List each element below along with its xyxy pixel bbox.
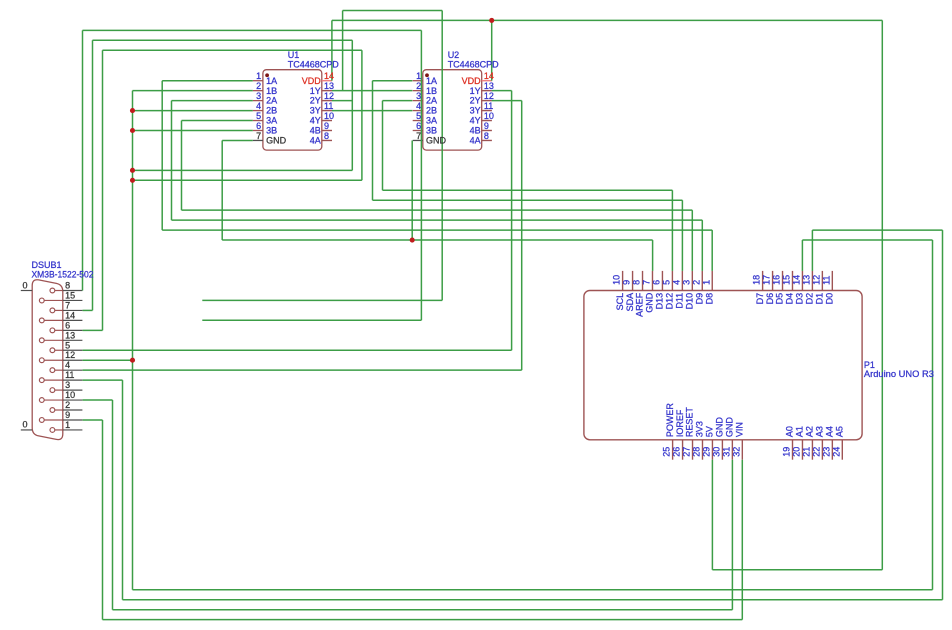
svg-text:5: 5 [416,111,421,121]
wire junction column vertical [132,91,134,590]
wire net U2-1Y/DSUB5 horizontal [83,349,512,351]
wire net DSUB11/D2 P1 drop [811,230,813,271]
wire net U1-2A/D9 drop [171,101,173,221]
wire net DSUB pin6 top horizontal [103,49,362,51]
svg-text:4: 4 [256,101,261,111]
svg-text:1B: 1B [426,86,437,96]
DSUB1 reference labels [32,260,94,280]
svg-text:2: 2 [691,280,701,285]
wire net DSUB pin8 top horizontal [83,29,422,31]
svg-text:6: 6 [416,121,421,131]
svg-text:9: 9 [484,121,489,131]
wire VDD net: right vertical [881,20,883,569]
svg-text:11: 11 [65,370,74,380]
wire VDD net: U1 pin14 riser [331,20,333,80]
svg-text:10: 10 [484,111,494,121]
svg-text:D0: D0 [825,293,835,305]
wire net DSUB9/VIN32 bottom horizontal [103,619,743,621]
svg-text:2: 2 [416,81,421,91]
svg-text:3: 3 [256,91,261,101]
svg-text:A4: A4 [825,426,835,437]
svg-text:1A: 1A [426,76,437,86]
P1 reference labels [864,360,934,379]
svg-text:4: 4 [671,280,681,285]
svg-text:TC4468CPD: TC4468CPD [288,60,339,70]
svg-text:3V3: 3V3 [695,421,705,437]
wire D3 wrap horizontal [802,239,932,241]
svg-text:D12: D12 [665,293,675,310]
svg-text:3A: 3A [266,116,277,126]
svg-text:0: 0 [23,420,28,430]
driver IC U2 TC4468CPD body [413,70,492,150]
svg-text:A3: A3 [815,426,825,437]
svg-text:D7: D7 [755,293,765,305]
svg-text:7: 7 [416,131,421,141]
wire net U2-2A/D12 bus horizontal [383,189,673,191]
U1 pin-1 marker [265,73,269,77]
wire net DSUB pin7 bus horizontal [133,169,353,171]
svg-text:12: 12 [65,350,75,360]
svg-text:RESET: RESET [685,407,695,438]
svg-text:8: 8 [632,280,642,285]
svg-text:32: 32 [731,447,741,457]
svg-text:10: 10 [612,275,622,285]
svg-text:13: 13 [484,81,494,91]
wire net U1-1Y bridge top [343,10,443,12]
svg-text:1A: 1A [266,76,277,86]
svg-text:23: 23 [821,447,831,457]
svg-text:9: 9 [65,410,70,420]
svg-text:2: 2 [256,81,261,91]
svg-text:8: 8 [324,131,329,141]
svg-text:GND: GND [426,136,447,146]
wire GND net: U1 pin7 feed [222,139,253,141]
DSUB1 shield pin labels [23,280,28,429]
svg-text:D11: D11 [675,293,685,309]
svg-text:19: 19 [782,447,792,457]
svg-text:GND: GND [266,136,287,146]
svg-text:7: 7 [65,300,70,310]
svg-text:2A: 2A [266,96,277,106]
svg-text:2Y: 2Y [470,96,481,106]
wire net U2-1A/D11 drop [372,81,374,201]
wire net DSUB pin7 top horizontal [93,39,353,41]
wire net DSUB10/GND31 P1 pin31 drop [731,460,733,610]
wire net U1-1A/D8 drop [161,81,163,230]
svg-text:Arduino UNO R3: Arduino UNO R3 [864,369,934,379]
svg-text:1: 1 [65,420,70,430]
U1 reference labels [288,50,339,70]
svg-text:GND: GND [725,417,735,438]
svg-text:14: 14 [792,275,802,285]
svg-text:10: 10 [324,111,334,121]
wire GND net: drop [221,140,223,240]
svg-text:7: 7 [642,280,652,285]
svg-text:9: 9 [324,121,329,131]
svg-text:9: 9 [622,280,632,285]
svg-text:4A: 4A [310,136,321,146]
svg-text:30: 30 [712,447,722,457]
svg-text:A2: A2 [805,426,815,437]
wire net DSUB11/D2 wrap horizontal [812,229,942,231]
P1 top pin numbers and labels [612,275,835,317]
svg-text:1B: 1B [266,86,277,96]
svg-text:5: 5 [65,340,70,350]
wire net DSUB11/D2 jog [83,379,123,381]
svg-text:22: 22 [811,447,821,457]
wire net U2-1Y/DSUB5 feed [492,90,512,92]
svg-text:IOREF: IOREF [675,409,685,437]
svg-text:14: 14 [484,71,494,81]
wire net U2-2A/D12 feed [383,100,413,102]
svg-text:4A: 4A [470,136,481,146]
wire net DSUB pin7 jog [83,309,93,311]
svg-text:15: 15 [782,275,792,285]
svg-text:D8: D8 [704,293,714,305]
U2 pin-1 marker [425,73,429,77]
svg-text:28: 28 [692,447,702,457]
svg-text:2B: 2B [266,106,277,116]
svg-text:1: 1 [256,71,261,81]
svg-text:7: 7 [256,131,261,141]
svg-text:D4: D4 [785,293,795,305]
wire net DSUB9/VIN32 P1 pin32 drop [741,460,743,620]
wire net DSUB pin6 riser [102,50,104,330]
driver IC U1 TC4468CPD body [253,70,332,150]
P1 bottom pin numbers and labels [662,403,845,457]
svg-text:29: 29 [702,447,712,457]
svg-text:AREF: AREF [635,292,645,317]
svg-text:3Y: 3Y [470,106,481,116]
svg-text:POWER: POWER [665,403,675,438]
svg-text:20: 20 [792,447,802,457]
svg-text:12: 12 [324,91,334,101]
svg-text:4B: 4B [310,126,321,136]
svg-text:GND: GND [715,417,725,438]
wire net U1-2A/D9 P1 drop [701,220,703,271]
U1 pin numbers and labels [256,71,334,146]
wire net DSUB pin8 drop beside U2 [420,30,422,320]
svg-text:13: 13 [65,330,75,340]
wire net U1-1A/D8 feed [162,80,253,82]
wire GND net: P1 pin7 drop [652,240,654,271]
svg-text:D3: D3 [795,293,805,305]
wire GND net: U2 pin7 drop [411,140,413,240]
node junction column at DSUB pin12 row [130,358,135,363]
svg-text:4B: 4B [470,126,481,136]
wire net U1-3A/D10 feed [182,120,253,122]
svg-text:VDD: VDD [462,76,482,86]
svg-text:1Y: 1Y [310,86,321,96]
svg-text:26: 26 [672,447,682,457]
svg-text:4Y: 4Y [310,116,321,126]
svg-text:A0: A0 [785,426,795,437]
svg-text:3B: 3B [426,126,437,136]
wire D3 wrap right riser [932,240,934,590]
P1 bottom pin stubs [673,440,843,460]
svg-text:14: 14 [65,310,75,320]
svg-text:D13: D13 [655,293,665,310]
svg-text:8: 8 [65,281,70,291]
wire VDD net: top horizontal [332,19,882,21]
node junction column at DSUB7 bus row [130,168,135,173]
svg-text:3: 3 [65,380,70,390]
svg-text:VIN: VIN [735,422,745,437]
svg-text:4Y: 4Y [470,116,481,126]
svg-text:17: 17 [762,275,772,285]
wire net DSUB pin6 drop [361,50,363,180]
svg-text:TC4468CPD: TC4468CPD [448,60,499,70]
svg-text:2: 2 [65,400,70,410]
DSUB1 pin numbers [65,281,75,430]
wire net DSUB10/GND31 drop [112,400,114,610]
svg-text:4: 4 [416,101,421,111]
wire net U1-1A/D8 P1 drop [711,230,713,271]
svg-text:21: 21 [802,447,812,457]
wire net DSUB9/VIN32 jog [83,419,103,421]
wire net DSUB10/GND31 jog [83,399,113,401]
wire net U1-3A/D10 P1 drop [691,210,693,271]
svg-text:12: 12 [811,275,821,285]
svg-text:SCL: SCL [615,293,625,311]
svg-text:5V: 5V [705,426,715,437]
svg-text:2Y: 2Y [310,96,321,106]
wire net U1-3Y to U2-2B direct [332,110,413,112]
wire U1 pin12 2Y tap [332,100,352,102]
svg-text:31: 31 [721,447,731,457]
wire net U1-3A/D10 bus horizontal [182,209,693,211]
svg-text:10: 10 [65,390,75,400]
svg-text:1: 1 [416,71,421,81]
wire net U1-2A/D9 feed [172,100,253,102]
svg-text:27: 27 [682,447,692,457]
node junction column at DSUB6 bus row [130,178,135,183]
wire net U1-3A/D10 drop [181,121,183,211]
wire net DSUB9/VIN32 drop [102,420,104,620]
svg-text:D1: D1 [815,293,825,305]
wire U1 pin6 3B feed [133,130,253,132]
wire net U2-2Y/DSUB4 feed [492,100,522,102]
svg-text:3A: 3A [426,116,437,126]
DSUB1 pin stubs [63,291,83,430]
wire net DSUB pin7 riser [92,40,94,310]
wire DSUB pin12 feed [83,359,133,361]
node GND net junction at U2 pin7 drop [410,238,415,243]
svg-text:A1: A1 [795,426,805,437]
wire net U2-2A/D12 P1 drop [671,190,673,271]
svg-text:U2: U2 [448,50,460,60]
P1 top pin stubs [623,271,833,291]
svg-text:XM3B-1522-502: XM3B-1522-502 [32,270,94,280]
wire net U2-1A/D11 bus horizontal [373,199,683,201]
svg-text:5: 5 [662,280,672,285]
svg-text:3: 3 [416,91,421,101]
svg-text:D2: D2 [805,293,815,305]
svg-text:SDA: SDA [625,293,635,312]
wire bottom horizontal to D3 wrap [133,589,933,591]
svg-text:6: 6 [65,320,70,330]
svg-text:A5: A5 [835,426,845,437]
svg-text:3B: 3B [266,126,277,136]
svg-text:6: 6 [256,121,261,131]
svg-text:D9: D9 [694,293,704,305]
svg-text:0: 0 [23,280,28,290]
svg-text:U1: U1 [288,50,300,60]
wire net DSUB pin6 jog [83,329,103,331]
svg-text:D5: D5 [775,293,785,305]
svg-text:25: 25 [662,447,672,457]
wire net U1-1A/D8 bus horizontal [162,229,712,231]
svg-text:VDD: VDD [302,76,322,86]
svg-text:5: 5 [256,111,261,121]
svg-text:11: 11 [821,276,831,285]
wire net U2-2A/D12 drop [382,101,384,191]
svg-text:DSUB1: DSUB1 [32,260,62,270]
wire net U1-1Y bridge riser [342,11,344,91]
svg-text:16: 16 [772,275,782,285]
wire VDD net: P1 pin29 5V drop [711,460,713,570]
wire net U2-1A/D11 P1 drop [681,200,683,271]
node VDD net junction at U2 pin14 [489,18,494,23]
svg-text:13: 13 [802,275,812,285]
connector DSUB1 XM3B-1522-502 body [32,280,63,440]
wire net U2-1A/D11 feed [373,80,413,82]
svg-text:11: 11 [484,101,493,111]
wire net U1-1Y to U2-1B horizontal [332,90,413,92]
DSUB1 shield pin 0 (top) [21,290,32,292]
svg-text:3Y: 3Y [310,106,321,116]
wire net DSUB pin8 riser [82,30,84,290]
DSUB1 shield pin 0 (bottom) [21,429,32,431]
svg-text:D10: D10 [685,293,695,310]
svg-text:4: 4 [65,360,70,370]
svg-text:8: 8 [484,131,489,141]
svg-text:13: 13 [324,81,334,91]
svg-text:1: 1 [701,280,711,285]
wire net U1-2A/D9 bus horizontal [172,219,703,221]
svg-text:15: 15 [65,290,75,300]
wire net U1-1Y left stub line [202,299,442,301]
svg-text:2B: 2B [426,106,437,116]
svg-text:3: 3 [681,280,691,285]
svg-text:14: 14 [324,71,334,81]
wire U1 pin2 1B feed [133,90,253,92]
wire net DSUB10/GND31 bottom horizontal [113,609,733,611]
svg-text:2A: 2A [426,96,437,106]
U2 pin numbers and labels [416,71,494,146]
wire U1 pin4 2B feed [133,110,253,112]
svg-text:GND: GND [645,292,655,313]
svg-text:24: 24 [831,447,841,457]
svg-text:18: 18 [752,275,762,285]
svg-text:12: 12 [484,91,494,101]
wire net U2-2Y/DSUB4 drop [521,101,523,371]
svg-text:D6: D6 [765,293,775,305]
wire VDD net: bottom horizontal [712,569,882,571]
wire net DSUB pin8 left stub line [202,319,421,321]
svg-text:6: 6 [652,280,662,285]
module P1 Arduino UNO R3 body [584,291,862,440]
wire net DSUB11/D2 bottom horizontal [123,599,943,601]
wire net DSUB pin7 drop past U1-2Y [351,40,353,170]
node junction column at U1 pin4 row [130,108,135,113]
svg-text:1Y: 1Y [470,86,481,96]
wire net U2-2Y/DSUB4 horizontal [83,369,522,371]
wire net DSUB pin6 bus horizontal [133,179,362,181]
wire GND net: bus horizontal [222,239,652,241]
wire net U1-1Y drop through U2 [441,11,443,301]
node junction column at U1 pin6 row [130,128,135,133]
wire VDD net: U2 pin14 riser [491,20,493,80]
svg-text:11: 11 [324,101,333,111]
U2 reference labels [448,50,499,70]
wire net U2-1Y/DSUB5 drop [511,91,513,351]
wire net DSUB11/D2 drop [122,380,124,600]
wire net DSUB11/D2 right riser [942,230,944,600]
wire P1 D3 drop [801,240,803,271]
